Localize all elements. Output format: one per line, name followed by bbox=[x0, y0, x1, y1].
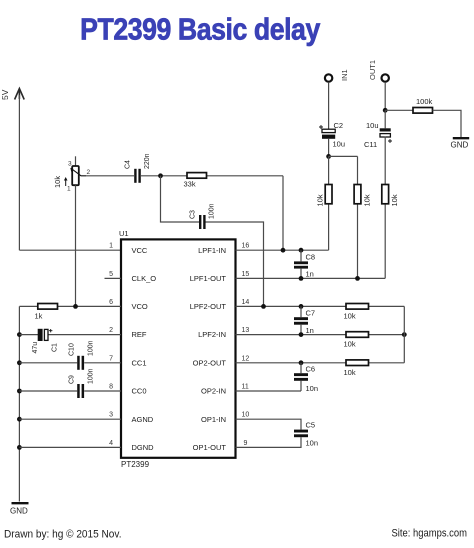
potentiometer 10k body bbox=[64, 166, 86, 186]
svg-text:Site: hgamps.com: Site: hgamps.com bbox=[392, 528, 468, 540]
svg-text:1k: 1k bbox=[35, 312, 43, 321]
wire C2 to junction bbox=[328, 139, 330, 157]
wire LPF2-IN row pin13 bbox=[236, 334, 405, 336]
svg-text:VCO: VCO bbox=[132, 302, 148, 311]
wire CC0 row: rail to C9 to IC pin8 bbox=[19, 390, 77, 392]
svg-text:C5: C5 bbox=[306, 421, 316, 430]
wire OP2-IN row pin11 to C6 bottom bbox=[236, 390, 302, 392]
svg-text:47u: 47u bbox=[32, 342, 39, 354]
ground rail left bbox=[18, 306, 20, 501]
junction rail CC0 row bbox=[17, 389, 22, 394]
capacitor C3 plates bbox=[199, 215, 206, 229]
potentiometer 10k stub top (pin3) bbox=[75, 156, 77, 166]
svg-text:CC0: CC0 bbox=[132, 387, 147, 396]
wire wiper row: pot to C4 to node A to 33k to corner bbox=[86, 175, 134, 177]
wire 5V vertical to VCC row bbox=[18, 95, 20, 250]
svg-text:4: 4 bbox=[109, 440, 113, 447]
junction rail REF row bbox=[17, 332, 22, 337]
svg-text:C3: C3 bbox=[190, 210, 197, 219]
svg-text:7: 7 bbox=[109, 355, 113, 362]
junction OUT1 bbox=[383, 108, 388, 113]
svg-text:OP2-IN: OP2-IN bbox=[201, 387, 226, 396]
junction C8 bottom bbox=[299, 276, 304, 281]
capacitor C2 electrolytic 10u bbox=[319, 125, 335, 139]
resistor 33k body bbox=[187, 173, 207, 179]
junction rail CC1 row bbox=[17, 360, 22, 365]
wire CC1 row: rail to C10 to IC pin7 bbox=[19, 362, 77, 364]
svg-text:OUT1: OUT1 bbox=[368, 60, 377, 80]
resistor 10k (rail1) body bbox=[325, 185, 332, 204]
ground symbol right bbox=[451, 138, 470, 149]
junction below C2 bbox=[326, 154, 331, 159]
svg-text:10k: 10k bbox=[316, 194, 325, 206]
svg-text:220n: 220n bbox=[144, 153, 151, 169]
resistor 10k (rail3) body bbox=[382, 185, 389, 204]
svg-text:33k: 33k bbox=[184, 180, 196, 189]
svg-text:3: 3 bbox=[68, 161, 72, 168]
svg-text:10n: 10n bbox=[306, 439, 319, 448]
wire junction to 100k bbox=[385, 109, 413, 111]
IC U1 box bbox=[121, 239, 236, 457]
svg-text:C1: C1 bbox=[52, 343, 59, 352]
junction C8 top bbox=[299, 248, 304, 253]
svg-text:9: 9 bbox=[244, 440, 248, 447]
svg-text:PT2399: PT2399 bbox=[121, 460, 150, 469]
svg-text:GND: GND bbox=[451, 141, 469, 150]
wire from node A down to C3 row bbox=[161, 176, 200, 222]
svg-text:10u: 10u bbox=[333, 140, 346, 149]
power 5V arrow bbox=[15, 89, 25, 100]
svg-text:10: 10 bbox=[242, 412, 250, 419]
resistor 10k (rail2) body bbox=[354, 185, 361, 204]
capacitor C6 plates bbox=[294, 373, 308, 381]
svg-text:1n: 1n bbox=[306, 326, 314, 335]
svg-text:OP1-IN: OP1-IN bbox=[201, 415, 226, 424]
wire LPF1-IN row pin16 bbox=[236, 249, 329, 251]
svg-text:16: 16 bbox=[242, 243, 250, 250]
svg-text:LPF1-IN: LPF1-IN bbox=[198, 246, 226, 255]
svg-text:C4: C4 bbox=[125, 160, 132, 169]
svg-text:Drawn by: hg © 2015 Nov.: Drawn by: hg © 2015 Nov. bbox=[4, 529, 122, 541]
wire OP1-OUT row pin9 to C5 bottom bbox=[236, 437, 302, 447]
svg-text:1: 1 bbox=[109, 243, 113, 250]
svg-text:10k: 10k bbox=[363, 194, 372, 206]
junction rail2 on pin15 row bbox=[355, 276, 360, 281]
svg-text:10n: 10n bbox=[306, 384, 319, 393]
capacitor C11 electrolytic 10u bbox=[380, 128, 392, 143]
resistor 10k (row12) body bbox=[346, 360, 369, 366]
svg-text:LPF1-OUT: LPF1-OUT bbox=[190, 274, 227, 283]
svg-text:11: 11 bbox=[242, 384, 249, 391]
svg-text:10k: 10k bbox=[390, 194, 399, 206]
svg-text:14: 14 bbox=[242, 299, 250, 306]
svg-text:LPF2-IN: LPF2-IN bbox=[198, 330, 226, 339]
junction 33k drop on pin16 row bbox=[281, 248, 286, 253]
capacitor C7 plates bbox=[294, 317, 308, 324]
svg-text:12: 12 bbox=[242, 355, 250, 362]
wire 100k to GND bbox=[433, 110, 462, 138]
svg-text:10u: 10u bbox=[366, 121, 379, 130]
wire OP2-OUT row pin12 bbox=[236, 362, 405, 364]
svg-text:REF: REF bbox=[132, 330, 147, 339]
svg-text:1n: 1n bbox=[306, 270, 314, 279]
capacitor C7 link wires bbox=[300, 306, 302, 334]
svg-text:15: 15 bbox=[242, 271, 250, 278]
junction C3 drop on pin14 row bbox=[261, 304, 266, 309]
svg-text:C7: C7 bbox=[306, 309, 316, 318]
right vertical rail joining rows 14-13-12 bbox=[403, 306, 405, 362]
svg-text:CC1: CC1 bbox=[132, 358, 147, 367]
svg-text:5: 5 bbox=[109, 271, 113, 278]
svg-text:10k: 10k bbox=[344, 340, 356, 349]
capacitor C9 plates bbox=[77, 384, 84, 398]
resistor 10k (row13) body bbox=[346, 332, 369, 338]
IC left pin names bbox=[132, 246, 157, 452]
svg-text:3: 3 bbox=[109, 412, 113, 419]
svg-text:C6: C6 bbox=[306, 365, 316, 374]
svg-text:2: 2 bbox=[87, 169, 91, 176]
svg-text:10k: 10k bbox=[344, 312, 356, 321]
wire IN1 to C2 bbox=[328, 82, 330, 129]
IC right pin numbers bbox=[242, 243, 250, 447]
wire pot bottom to VCO row bbox=[75, 185, 77, 306]
svg-text:100n: 100n bbox=[209, 203, 216, 219]
wire REF row: rail to C1 to IC pin2 bbox=[19, 334, 38, 336]
resistor 10k (row14) body bbox=[346, 304, 369, 310]
wire DGND row bbox=[19, 446, 121, 448]
capacitor C5 plates bbox=[294, 430, 308, 438]
svg-text:DGND: DGND bbox=[132, 443, 155, 452]
svg-text:1: 1 bbox=[67, 186, 71, 193]
svg-text:100k: 100k bbox=[416, 97, 433, 106]
wire OP1-IN row pin10 to C5 top bbox=[236, 419, 302, 429]
svg-text:10k: 10k bbox=[344, 368, 356, 377]
junction pot/VCO bbox=[73, 304, 78, 309]
wire junction horizontal to rail2 bbox=[329, 155, 358, 157]
svg-text:5V: 5V bbox=[0, 89, 10, 100]
svg-text:U1: U1 bbox=[119, 229, 129, 238]
resistor 100k body bbox=[413, 108, 433, 114]
capacitor C4 plates bbox=[134, 169, 141, 183]
wire VCO row: ground rail to 1k to junction to IC pin6 bbox=[19, 305, 121, 307]
node A junction after C4 bbox=[158, 173, 163, 178]
junction right rail row13 bbox=[402, 332, 407, 337]
wire C3 right to pin14 drop bbox=[205, 222, 263, 306]
svg-text:IN1: IN1 bbox=[340, 69, 349, 81]
svg-text:PT2399 Basic delay: PT2399 Basic delay bbox=[80, 13, 320, 47]
svg-text:C11: C11 bbox=[364, 140, 377, 149]
wire OUT1 to junction bbox=[384, 82, 386, 110]
svg-text:C9: C9 bbox=[69, 375, 76, 384]
title bbox=[80, 13, 320, 47]
junction rail DGND row bbox=[17, 445, 22, 450]
capacitor C1 electrolytic 47u bbox=[38, 329, 53, 341]
pin 5 CLK_O stub bbox=[105, 277, 122, 279]
wire AGND row bbox=[19, 418, 121, 420]
junction C7 top bbox=[299, 304, 304, 309]
capacitor C10 plates bbox=[77, 356, 84, 370]
capacitor C8 link wires bbox=[300, 250, 302, 278]
capacitor C8 plates bbox=[294, 261, 308, 268]
svg-text:C10: C10 bbox=[69, 343, 76, 356]
wire VCC row to IC pin1 bbox=[19, 249, 121, 251]
svg-text:LPF2-OUT: LPF2-OUT bbox=[190, 302, 227, 311]
wire OUT1 junction down to C11 bbox=[384, 110, 386, 128]
junction C7 bottom bbox=[299, 332, 304, 337]
wire rail2 down through 10k to LPF1-OUT row bbox=[357, 156, 359, 278]
terminal OUT1 bbox=[382, 74, 389, 81]
svg-text:100n: 100n bbox=[88, 340, 95, 356]
svg-text:10k: 10k bbox=[53, 176, 62, 188]
resistor 1k body bbox=[38, 304, 58, 310]
wire C11 down through 10k to LPF1-OUT row end bbox=[384, 137, 386, 279]
IC left pin numbers bbox=[109, 243, 113, 447]
IC right pin names bbox=[190, 246, 227, 452]
svg-text:100n: 100n bbox=[88, 368, 95, 384]
svg-text:OP1-OUT: OP1-OUT bbox=[193, 443, 227, 452]
svg-text:8: 8 bbox=[109, 384, 113, 391]
svg-text:OP2-OUT: OP2-OUT bbox=[193, 358, 227, 367]
wire rail1 down through 10k to LPF1-IN row bbox=[328, 156, 330, 250]
svg-text:13: 13 bbox=[242, 327, 250, 334]
svg-text:AGND: AGND bbox=[132, 415, 154, 424]
svg-text:C2: C2 bbox=[334, 121, 344, 130]
svg-text:VCC: VCC bbox=[132, 246, 148, 255]
junction C6 top bbox=[299, 360, 304, 365]
wire 33k corner down to LPF1-IN row bbox=[282, 176, 284, 250]
junction rail AGND row bbox=[17, 417, 22, 422]
svg-text:C8: C8 bbox=[306, 253, 316, 262]
wire LPF2-OUT row pin14 bbox=[236, 305, 405, 307]
terminal IN1 bbox=[325, 74, 332, 81]
svg-text:CLK_O: CLK_O bbox=[132, 274, 157, 283]
ground symbol left bbox=[10, 503, 29, 515]
svg-text:GND: GND bbox=[10, 507, 28, 516]
capacitor C6 link wires bbox=[300, 363, 302, 391]
svg-text:2: 2 bbox=[109, 327, 113, 334]
svg-text:6: 6 bbox=[109, 299, 113, 306]
wire LPF1-OUT row pin15 bbox=[236, 277, 386, 279]
